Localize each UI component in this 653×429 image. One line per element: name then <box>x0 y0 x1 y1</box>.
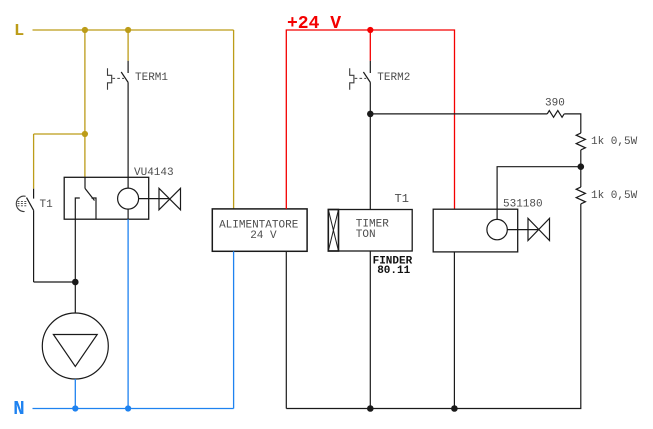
timer coil hatched box <box>328 210 338 252</box>
switch TERM1 <box>121 61 128 178</box>
junction on L rail node B <box>125 27 131 33</box>
svg-text:TON: TON <box>356 229 376 241</box>
resistor R3 1k 0,5W <box>576 187 585 204</box>
wire R2 to junction <box>580 150 582 167</box>
resistor R1 390 <box>547 111 564 118</box>
wire branch to T1 horizontal <box>34 133 85 135</box>
wire alimentatore to N rail <box>233 251 235 408</box>
switch T1 thermostat <box>27 189 34 282</box>
wire divider to R3 <box>580 167 582 187</box>
wire 531180 to bottom rail <box>453 252 455 409</box>
junction resistor divider node <box>578 163 585 170</box>
junction pump node <box>72 279 79 286</box>
531180 solenoid circle <box>487 219 507 239</box>
svg-text:VU4143: VU4143 <box>134 167 174 179</box>
wire T1 bottom to junction <box>34 281 76 283</box>
TERM1 dashed link <box>113 77 125 79</box>
switch TERM2 <box>363 61 370 114</box>
wire alimentatore minus output <box>285 251 287 408</box>
TERM2 dashed link <box>355 77 367 79</box>
VU4143 right contact <box>92 198 97 219</box>
wire branch to T1 vertical <box>33 134 35 189</box>
junction timer on bottom rail <box>367 405 374 412</box>
junction +24V rail TERM2 <box>367 27 373 33</box>
svg-text:1k 0,5W: 1k 0,5W <box>591 136 638 148</box>
svg-text:L: L <box>14 22 24 41</box>
wire VU4143 solenoid to valve <box>139 198 170 200</box>
svg-text:390: 390 <box>545 98 565 110</box>
wire R1 to right bus <box>564 114 581 133</box>
junction pump on N rail <box>72 405 78 411</box>
wire N rail <box>33 408 234 410</box>
wire 531180 solenoid to valve <box>507 229 538 231</box>
svg-text:TERM1: TERM1 <box>135 72 168 84</box>
svg-text:+24 V: +24 V <box>287 14 341 34</box>
junction TERM2 output node <box>367 111 374 118</box>
svg-text:1k 0,5W: 1k 0,5W <box>591 190 638 202</box>
junction VU4143 on N rail <box>125 405 131 411</box>
wire TERM2 node to resistor 390 <box>370 113 547 115</box>
wire VU4143 to N rail <box>127 219 129 408</box>
wire divider node to 531180 <box>497 167 581 220</box>
pump M1 triangle <box>53 335 97 367</box>
wire +24V to TERM2 <box>369 30 371 61</box>
wire node A vertical to VU4143 <box>84 30 86 177</box>
wire junction to pump <box>74 282 76 313</box>
svg-text:TERM2: TERM2 <box>377 72 410 84</box>
VU4143 internal switch blade <box>85 177 95 200</box>
pump M1 circle <box>42 313 108 379</box>
timer K1 box <box>328 210 412 252</box>
TERM1 thermal actuator <box>108 68 112 90</box>
svg-text:T1: T1 <box>395 192 409 206</box>
valve unit 531180 box <box>433 209 518 252</box>
valve symbol of VU4143 <box>159 188 181 210</box>
valve symbol of 531180 <box>528 218 550 240</box>
svg-text:80.11: 80.11 <box>377 265 410 277</box>
wire R3 to bottom rail <box>286 204 581 409</box>
T1 actuator dashes <box>18 201 28 205</box>
wire +24V rail <box>286 30 454 209</box>
VU4143 solenoid circle <box>118 188 139 209</box>
valve unit VU4143 box <box>64 177 149 219</box>
wire node B vertical to TERM1 <box>127 30 129 61</box>
wire solenoid to box bottom <box>127 209 129 219</box>
svg-text:T1: T1 <box>40 199 54 211</box>
junction node A branch to T1 <box>82 131 88 137</box>
wire pump to N rail <box>74 379 76 409</box>
wire timer to bottom rail <box>369 251 371 409</box>
VU4143 left contact and wire down to junction <box>75 198 80 282</box>
T1 actuator arc <box>16 196 25 211</box>
svg-text:N: N <box>13 398 24 420</box>
junction on L rail node A <box>82 27 88 33</box>
power supply U1 box <box>212 209 307 251</box>
resistor R2 1k 0,5W <box>576 133 585 150</box>
svg-text:24 V: 24 V <box>250 230 277 242</box>
junction 531180 on bottom rail <box>451 405 458 412</box>
TERM2 thermal actuator <box>350 68 354 90</box>
svg-text:531180: 531180 <box>503 199 543 211</box>
wire L rail <box>33 29 234 31</box>
wire L rail drop to alimentatore <box>233 30 235 209</box>
wire TERM1 into VU4143 solenoid <box>127 177 129 188</box>
wire TERM2 to timer coil <box>369 114 371 210</box>
